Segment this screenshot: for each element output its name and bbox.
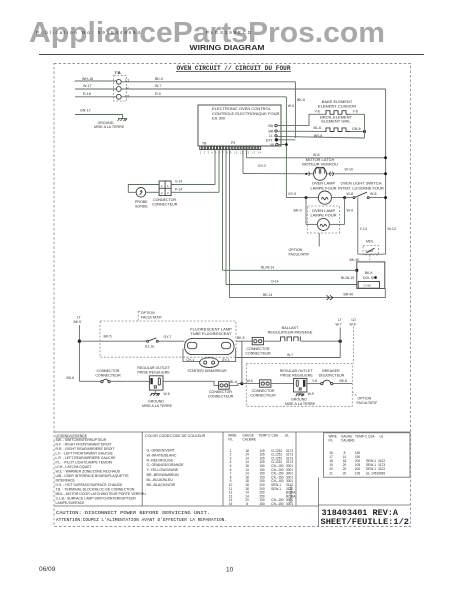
stub LD W-9 dashed	[353, 327, 355, 364]
wire BA to bake element	[277, 114, 309, 125]
svg-text:LAMPE FOUR: LAMPE FOUR	[310, 212, 336, 217]
svg-text:PRISE REGULIERE: PRISE REGULIERE	[137, 370, 170, 374]
svg-text:20: 20	[343, 471, 347, 475]
wire BK-5	[79, 340, 146, 342]
svg-text:W.-WHITE/BLANC: W.-WHITE/BLANC	[147, 453, 177, 457]
electronic oven control U1	[198, 105, 281, 146]
svg-text:MISE A LA TERRE: MISE A LA TERRE	[94, 125, 125, 129]
legend box borders	[54, 432, 411, 527]
svg-text:CONNECTEUR: CONNECTEUR	[95, 373, 121, 377]
svg-text:W-6: W-6	[164, 392, 170, 396]
svg-text:GN-17: GN-17	[80, 109, 91, 113]
svg-text:REGULATEUR-PASSAGE: REGULATEUR-PASSAGE	[268, 331, 313, 335]
svg-text:G.-GREEN/VERT: G.-GREEN/VERT	[147, 449, 176, 453]
svg-text:LAMPE FOUR: LAMPE FOUR	[310, 185, 336, 190]
svg-text:UL-1452: UL-1452	[366, 471, 378, 475]
wire EXT stub	[278, 139, 295, 141]
svg-text:OPTION: OPTION	[358, 397, 372, 401]
wire R-18 to L2	[75, 96, 116, 98]
svg-text:O-14: O-14	[271, 280, 279, 284]
svg-text:15: 15	[229, 502, 233, 506]
svg-text:BK-9: BK-9	[74, 320, 82, 324]
svg-text:BL-6: BL-6	[314, 126, 322, 130]
wire gauge table 2	[329, 435, 386, 476]
svg-text:MISE A LA TERRE: MISE A LA TERRE	[285, 402, 316, 406]
ground 1	[154, 390, 156, 393]
wire BL-6	[229, 384, 242, 386]
svg-text:GY-1: GY-1	[187, 358, 195, 362]
starter	[200, 358, 219, 368]
svg-text:BK-40: BK-40	[350, 258, 360, 262]
breaker	[321, 382, 323, 384]
svg-text:GROUND: GROUND	[98, 121, 114, 125]
svg-text:CONNECTOR: CONNECTOR	[209, 390, 232, 394]
svg-text:T.B. - TERMINAL BLOCK/BLOC DE: T.B. - TERMINAL BLOCK/BLOC DE CONNECTION	[56, 488, 135, 492]
wire W-17 to N	[75, 88, 116, 90]
terminal N	[116, 87, 121, 92]
svg-text:BL/W-19: BL/W-19	[341, 276, 354, 280]
svg-text:LT: LT	[338, 318, 342, 322]
terminal L1	[116, 79, 121, 84]
svg-text:Y-8: Y-8	[312, 379, 317, 383]
svg-text:TB: TB	[202, 141, 207, 145]
svg-text:318403401: 318403401	[290, 485, 294, 503]
svg-text:LT: LT	[77, 315, 81, 319]
svg-text:BREAKER: BREAKER	[322, 369, 340, 373]
svg-text:BK-14: BK-14	[263, 293, 273, 297]
svg-text:3099: 3099	[378, 471, 385, 475]
svg-text:W-9: W-9	[350, 322, 356, 326]
svg-text:Y-6: Y-6	[315, 110, 320, 114]
svg-text:GROUND: GROUND	[291, 398, 307, 402]
svg-text:S.L.B.- SURFACE LAMP SWITCH/IN: S.L.B.- SURFACE LAMP SWITCH/INTERRUPTEUR	[56, 497, 137, 501]
svg-text:R-18: R-18	[83, 92, 91, 96]
neutral bus W vertical	[385, 89, 387, 254]
svg-text:FIL: FIL	[228, 438, 233, 442]
svg-text:PLES399ECD: PLES399ECD	[206, 30, 251, 35]
svg-text:8: 8	[246, 502, 248, 506]
node IN junction	[278, 144, 286, 146]
option box 2	[246, 364, 352, 407]
svg-text:FACULTATIF: FACULTATIF	[141, 316, 163, 320]
svg-text:CONNECTOR: CONNECTOR	[153, 198, 176, 202]
surface lamp switch S.L.B.	[147, 340, 149, 342]
svg-text:OPTION: OPTION	[141, 311, 155, 315]
wire Y-13 switch drop	[357, 198, 359, 255]
svg-text:Y-13: Y-13	[360, 227, 367, 231]
wire W-8 relay feed	[246, 150, 248, 158]
header rule	[39, 54, 424, 56]
svg-text:1 2 3 4 5 6 7 8 9 10 11 12 13: 1 2 3 4 5 6 7 8 9 10 11 12 13 14	[200, 150, 262, 154]
connector 3	[252, 337, 263, 344]
svg-text:S.L.B.: S.L.B.	[145, 345, 155, 349]
svg-text:Y-6: Y-6	[353, 110, 358, 114]
svg-text:PROBE: PROBE	[135, 200, 148, 204]
svg-text:W-9: W-9	[308, 392, 314, 396]
schematic border frame	[54, 64, 411, 527]
svg-text:SEW-1: SEW-1	[271, 487, 281, 491]
svg-text:UL: UL	[380, 435, 384, 439]
svg-text:TEMP C: TEMP C	[259, 434, 272, 438]
svg-text:H.S. - HOT SURFACE/SURFACE CHA: H.S. - HOT SURFACE/SURFACE CHAUDE	[56, 483, 123, 487]
wire to breaker	[307, 383, 321, 385]
optional oven lamp DS2	[308, 206, 340, 233]
svg-text:CONNECTOR: CONNECTOR	[246, 347, 269, 351]
svg-text:R-9: R-9	[155, 92, 161, 96]
svg-text:WH-16: WH-16	[82, 77, 93, 81]
svg-text:DISJONCTEUR: DISJONCTEUR	[319, 374, 345, 378]
node BL/W-14 junction	[355, 269, 358, 272]
svg-text:CALIBRE: CALIBRE	[341, 439, 355, 443]
wire P-14	[218, 150, 220, 193]
svg-text:W-17: W-17	[83, 84, 92, 88]
svg-text:ELEMENT CUISSON: ELEMENT CUISSON	[318, 103, 356, 108]
door latch switch box DOL	[357, 262, 385, 289]
svg-text:CSA: CSA	[272, 434, 279, 438]
svg-text:P3: P3	[231, 141, 235, 145]
svg-text:BA: BA	[269, 124, 274, 128]
wire BK-14 / BR-40	[229, 150, 231, 298]
svg-text:BK-5: BK-5	[237, 336, 245, 340]
svg-text:UL: UL	[285, 434, 289, 438]
svg-text:BK-8: BK-8	[340, 379, 348, 383]
svg-text:GY-7: GY-7	[164, 335, 172, 339]
svg-text:BALLAST: BALLAST	[282, 326, 299, 330]
svg-text:STARTER/ DEMARREUR: STARTER/ DEMARREUR	[187, 369, 227, 373]
svg-text:MDL - MOTOR DOOR LATCH/MOTEUR: MDL - MOTOR DOOR LATCH/MOTEUR PORTE VERR…	[56, 492, 147, 496]
svg-text:FACULTATIF: FACULTATIF	[357, 401, 379, 405]
svg-text:GN-6: GN-6	[352, 127, 361, 131]
node W-6 junction	[240, 382, 243, 385]
wire R-9 from L2	[121, 96, 286, 98]
svg-text:BR.-BROWN/BRUN: BR.-BROWN/BRUN	[147, 473, 180, 477]
svg-text:EXT: EXT	[266, 138, 273, 142]
svg-text:PRISE REGULIERE: PRISE REGULIERE	[280, 374, 313, 378]
regular outlet 2	[294, 378, 307, 392]
svg-text:MOTEUR VERROU: MOTEUR VERROU	[302, 161, 338, 166]
wire V-14	[214, 150, 216, 185]
svg-text:ELEMENT GRIL: ELEMENT GRIL	[321, 119, 351, 124]
svg-text:L.R. - LEFT REAR/ARRIERE GAUCH: L.R. - LEFT REAR/ARRIERE GAUCHE	[56, 456, 117, 460]
svg-text:TUBE FLUORESCENT: TUBE FLUORESCENT	[190, 331, 232, 336]
svg-text:IN: IN	[271, 143, 275, 147]
svg-text:BK-K: BK-K	[365, 271, 374, 275]
svg-text:W-10: W-10	[345, 168, 354, 172]
svg-text:SW. - SWITCH/INTERRUPTEUR: SW. - SWITCH/INTERRUPTEUR	[56, 438, 107, 442]
svg-text:O.-ORANGE/ORANGE: O.-ORANGE/ORANGE	[147, 463, 185, 467]
probe sensor	[128, 185, 159, 193]
svg-text:BK-5: BK-5	[104, 335, 112, 339]
wire BR-6 element return	[277, 136, 364, 138]
svg-text:21: 21	[329, 471, 333, 475]
svg-text:BL.-BLUE/BLEU: BL.-BLUE/BLEU	[147, 478, 174, 482]
svg-text:OVEN CIRCUIT // CIRCUIT DU FOU: OVEN CIRCUIT // CIRCUIT DU FOUR	[177, 65, 291, 72]
svg-text:C NO: C NO	[364, 284, 372, 288]
MDL pin link	[369, 255, 371, 262]
svg-text:REGULAR OUTLET: REGULAR OUTLET	[280, 369, 313, 373]
svg-text:GY-2: GY-2	[258, 164, 266, 168]
svg-text:W-8: W-8	[370, 192, 377, 196]
svg-text:UIB - USER INTERFACE BOARD/PLA: UIB - USER INTERFACE BOARD/PLAQUETTE	[56, 474, 130, 478]
color code column	[145, 434, 206, 487]
node element common junction	[363, 130, 366, 133]
svg-text:P-14: P-14	[175, 187, 182, 191]
inline connector	[101, 381, 103, 383]
inline connector chevrons on BK-14	[327, 295, 334, 300]
wire BL/W-14	[222, 150, 224, 270]
wire O-14	[225, 150, 227, 285]
svg-text:BK.-BLACK/NOIR: BK.-BLACK/NOIR	[147, 483, 176, 487]
wire W-6 vertical L2 drop	[285, 97, 287, 198]
wire P-14 link	[171, 191, 219, 193]
wire BK-9 from L1	[121, 81, 295, 83]
svg-text:GY-9: GY-9	[288, 192, 296, 196]
svg-text:CAUTION: DISCONNECT POWER BEFO: CAUTION: DISCONNECT POWER BEFORE SERVICI…	[56, 511, 210, 516]
wire W-7 from N	[121, 88, 385, 90]
legend column	[56, 434, 147, 505]
svg-text:BK-9: BK-9	[294, 209, 302, 213]
wire to connector 2	[163, 381, 219, 385]
svg-text:CONNECTOR: CONNECTOR	[96, 369, 119, 373]
svg-text:10: 10	[226, 567, 234, 574]
svg-text:W-13: W-13	[387, 227, 396, 231]
svg-text:ATTENTION:COUPEZ L'ALIMENTATIO: ATTENTION:COUPEZ L'ALIMENTATION AVANT D'…	[56, 518, 227, 523]
svg-text:CONNECTEUR: CONNECTEUR	[208, 394, 234, 398]
wire W-7 return	[236, 341, 340, 357]
svg-text:T.B.: T.B.	[115, 70, 122, 75]
svg-text:LD: LD	[352, 318, 357, 322]
terminal L2	[116, 94, 121, 99]
svg-text:INTER. LUCERNE FOUR: INTER. LUCERNE FOUR	[338, 185, 384, 190]
svg-text:MDL: MDL	[366, 240, 374, 244]
svg-text:R.-RED/ROUGE: R.-RED/ROUGE	[147, 458, 174, 462]
svg-text:COLOR CODE/CODE DE COULEUR: COLOR CODE/CODE DE COULEUR	[145, 434, 206, 438]
svg-text:CONNECTEUR: CONNECTEUR	[245, 351, 271, 355]
svg-text:ES 300: ES 300	[212, 116, 226, 121]
probe connector J1	[159, 181, 171, 196]
svg-text:Publication No: 5995449694: Publication No: 5995449694	[36, 30, 140, 35]
svg-text:SHEET/FEUILLE:1/2: SHEET/FEUILLE:1/2	[321, 517, 410, 527]
svg-text:OPTION: OPTION	[289, 248, 303, 252]
svg-text:06/09: 06/09	[39, 566, 56, 573]
svg-text:BL-6: BL-6	[230, 380, 237, 384]
svg-text:GROUND: GROUND	[148, 400, 164, 404]
ground 2	[299, 392, 301, 394]
svg-text:LAMPE-SURFACE: LAMPE-SURFACE	[56, 501, 86, 505]
svg-text:INTERFACE: INTERFACE	[56, 479, 76, 483]
option lamp leader + label	[318, 233, 320, 247]
svg-text:V-14: V-14	[175, 180, 182, 184]
svg-text:FACULTATIF: FACULTATIF	[289, 253, 311, 257]
svg-text:FIL: FIL	[329, 439, 334, 443]
svg-text:BK-6: BK-6	[67, 376, 75, 380]
EOC pin header row	[200, 146, 261, 149]
svg-text:CALIBRE: CALIBRE	[242, 438, 256, 442]
svg-text:Y.-YELLOW/JAUNE: Y.-YELLOW/JAUNE	[147, 468, 179, 472]
option box fluorescent	[100, 321, 236, 357]
wire MDL bottom link	[358, 253, 386, 255]
svg-text:BK-9: BK-9	[155, 77, 163, 81]
wire BK-6 vertical L1 drop	[294, 82, 296, 138]
wire gauge table 1	[228, 434, 296, 506]
svg-text:150: 150	[259, 502, 265, 506]
svg-text:SONDE: SONDE	[135, 205, 148, 209]
svg-text:BR: BR	[269, 129, 274, 133]
svg-text:W.Z. - WARMER ZONE/ZONE RECHAU: W.Z. - WARMER ZONE/ZONE RECHAUD	[56, 470, 121, 474]
svg-text:WIRING DIAGRAM: WIRING DIAGRAM	[190, 45, 265, 52]
svg-text:GY-1: GY-1	[222, 358, 230, 362]
svg-text:BR-40: BR-40	[344, 293, 354, 297]
svg-text:W-6: W-6	[288, 104, 294, 108]
svg-text:W-7: W-7	[155, 84, 162, 88]
svg-text:BL/W-14: BL/W-14	[261, 265, 274, 269]
svg-text:TEMP C: TEMP C	[355, 435, 368, 439]
svg-text:CONNECTEUR: CONNECTEUR	[152, 202, 178, 206]
svg-text:W-8: W-8	[347, 192, 354, 196]
connector 4	[260, 380, 271, 387]
wire BK-5 to ballast	[236, 340, 252, 342]
svg-text:CONNECTOR: CONNECTOR	[251, 389, 274, 393]
connector 2	[219, 382, 230, 390]
wire WH-16 to L1	[75, 81, 117, 82]
svg-text:MISE A LA TERRE: MISE A LA TERRE	[142, 404, 173, 408]
svg-text:L.F. - LEFT FRONT/AVANT GAUCHE: L.F. - LEFT FRONT/AVANT GAUCHE	[56, 452, 114, 456]
svg-text:REGULAR OUTLET: REGULAR OUTLET	[137, 366, 170, 370]
wire V-14 link	[171, 184, 215, 186]
svg-text:R.F. - RIGHT FRONT/AVANT DROIT: R.F. - RIGHT FRONT/AVANT DROIT	[56, 443, 113, 447]
svg-text:105: 105	[355, 471, 361, 475]
svg-text:W-7: W-7	[287, 353, 293, 357]
svg-text:CXL-150: CXL-150	[271, 502, 284, 506]
ground symbol chassis	[118, 119, 128, 122]
svg-text:BK-6: BK-6	[297, 98, 305, 102]
svg-text:R.R. - RIGHT REAR/ARRIERE DROI: R.R. - RIGHT REAR/ARRIERE DROIT	[56, 447, 116, 451]
node LT stub	[339, 328, 341, 342]
svg-text:P.L. - PILOT LIGHT/LAMPE TEMOI: P.L. - PILOT LIGHT/LAMPE TEMOIN	[56, 461, 113, 465]
svg-text:BR-6: BR-6	[314, 134, 322, 138]
svg-text:W-9: W-9	[347, 209, 354, 213]
svg-text:CSA: CSA	[368, 435, 375, 439]
svg-text:W-7: W-7	[336, 322, 342, 326]
svg-text:CONNECTEUR: CONNECTEUR	[250, 394, 276, 398]
svg-text:LCH - LATCH/LOQUET: LCH - LATCH/LOQUET	[56, 465, 93, 469]
svg-text:W-6: W-6	[247, 379, 253, 383]
